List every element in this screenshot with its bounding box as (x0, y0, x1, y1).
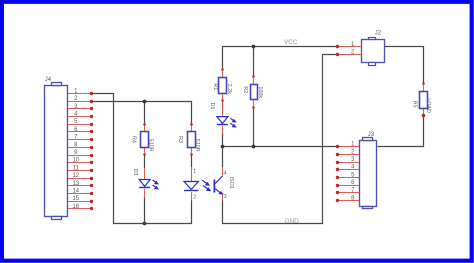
J4 pin 6 (68, 130, 94, 133)
J4 pin 1 (68, 92, 94, 95)
junction collector/D1 (221, 145, 225, 149)
J4 pin 2 (68, 100, 94, 103)
J4 pin 9 (68, 154, 94, 157)
svg-text:R2: R2 (242, 86, 248, 93)
wire R1 to D1 (222, 101, 224, 109)
svg-text:14: 14 (72, 189, 79, 195)
J4 pin 8 (68, 146, 94, 149)
J4 pin 14 (68, 192, 94, 195)
J4 pin 10 (68, 161, 94, 164)
J3 pin 2 (336, 153, 359, 156)
svg-text:2.2k: 2.2k (226, 84, 232, 94)
J4 pin 7 (68, 138, 94, 141)
wire D1 to collector net (222, 134, 224, 147)
connector J2 (362, 38, 385, 66)
J3 pin 1 (336, 145, 359, 148)
svg-text:D1: D1 (209, 103, 215, 110)
svg-text:10: 10 (72, 158, 79, 164)
svg-text:J3: J3 (368, 132, 375, 138)
svg-text:1: 1 (193, 169, 196, 175)
svg-text:GND: GND (285, 218, 300, 225)
resistor R1 (219, 68, 227, 102)
svg-text:VCC: VCC (284, 39, 298, 46)
wire R2 to collector net (253, 107, 255, 147)
wire collector net to J3 pin1 (223, 146, 338, 148)
svg-text:J2: J2 (375, 31, 382, 37)
svg-text:11: 11 (73, 165, 80, 171)
J3 pin 6 (336, 184, 359, 187)
ISO1 light arrows (202, 180, 210, 190)
wire GND net (emitter to J2 pin2) (223, 55, 338, 224)
wire ISO1 LED cathode to rail (191, 200, 193, 224)
svg-text:R1: R1 (212, 83, 218, 90)
J2 pin 2 (336, 53, 362, 56)
svg-text:D3: D3 (132, 169, 138, 176)
J3 pin 4 (336, 168, 359, 171)
J4 pin 16 (68, 207, 94, 210)
resistor R4 (141, 123, 149, 156)
optocoupler ISO1 LED (pins 1,2) (184, 167, 198, 200)
J3 pin 3 (336, 161, 359, 164)
LED D1 (217, 109, 236, 134)
svg-text:100k: 100k (257, 86, 263, 98)
wire R5 to J3 (378, 116, 424, 147)
svg-text:12: 12 (72, 173, 79, 179)
LED D3 (139, 168, 158, 198)
connector J3 (360, 138, 377, 209)
J4 pin 11 (68, 169, 94, 172)
svg-text:2: 2 (193, 194, 196, 200)
J4 pin 15 (68, 200, 94, 203)
svg-text:3: 3 (224, 194, 227, 200)
wire ISO1 collector drop (222, 147, 224, 168)
svg-text:4: 4 (224, 171, 227, 177)
J4 pin 5 (68, 123, 94, 126)
J4 pin 3 (68, 107, 94, 110)
svg-text:13: 13 (72, 181, 79, 187)
J4 pin 4 (68, 115, 94, 118)
wire VCC net (223, 47, 338, 71)
wire R4 top drop (144, 101, 146, 124)
svg-text:ISO1: ISO1 (228, 177, 234, 189)
J2 pin 1 (336, 45, 362, 48)
J3 pin 8 (336, 199, 359, 202)
svg-text:510R: 510R (194, 139, 200, 152)
resistor R5 (420, 82, 428, 117)
svg-text:LOAD: LOAD (425, 98, 431, 113)
wire VCC to R2 (253, 47, 255, 77)
wire R3 bottom (191, 155, 193, 167)
optocoupler ISO1 phototransistor (pins 3,4) (214, 167, 223, 201)
junction VCC at R2 (252, 45, 256, 49)
J3 pin 7 (336, 191, 359, 194)
J4 pin 13 (68, 184, 94, 187)
resistor R2 (251, 75, 258, 109)
junction on cathode rail at D3 (143, 222, 147, 226)
wire J4 pin1 net (down left side to cathode rail) (92, 94, 192, 224)
wire D3 cathode to rail (144, 198, 146, 224)
junction R5 bottom pin dot (422, 114, 425, 117)
svg-text:J4: J4 (45, 77, 52, 83)
wire R4 to D3 (144, 155, 146, 168)
junction at R4 branch (143, 100, 147, 104)
svg-text:R4: R4 (131, 136, 137, 143)
svg-text:510R: 510R (148, 139, 154, 152)
J3 pin 5 (336, 176, 359, 179)
svg-text:16: 16 (72, 204, 79, 210)
junction collector/R2 (252, 145, 256, 149)
connector J4 (45, 83, 68, 220)
resistor R3 (188, 123, 196, 156)
wire J4 pin2 net (to R4/R3 tops) (92, 102, 192, 125)
svg-text:15: 15 (72, 196, 79, 202)
J4 pin 12 (68, 177, 94, 180)
svg-text:R3: R3 (177, 136, 183, 143)
wire J2 to R5 (385, 47, 424, 84)
svg-text:R5: R5 (412, 101, 418, 108)
